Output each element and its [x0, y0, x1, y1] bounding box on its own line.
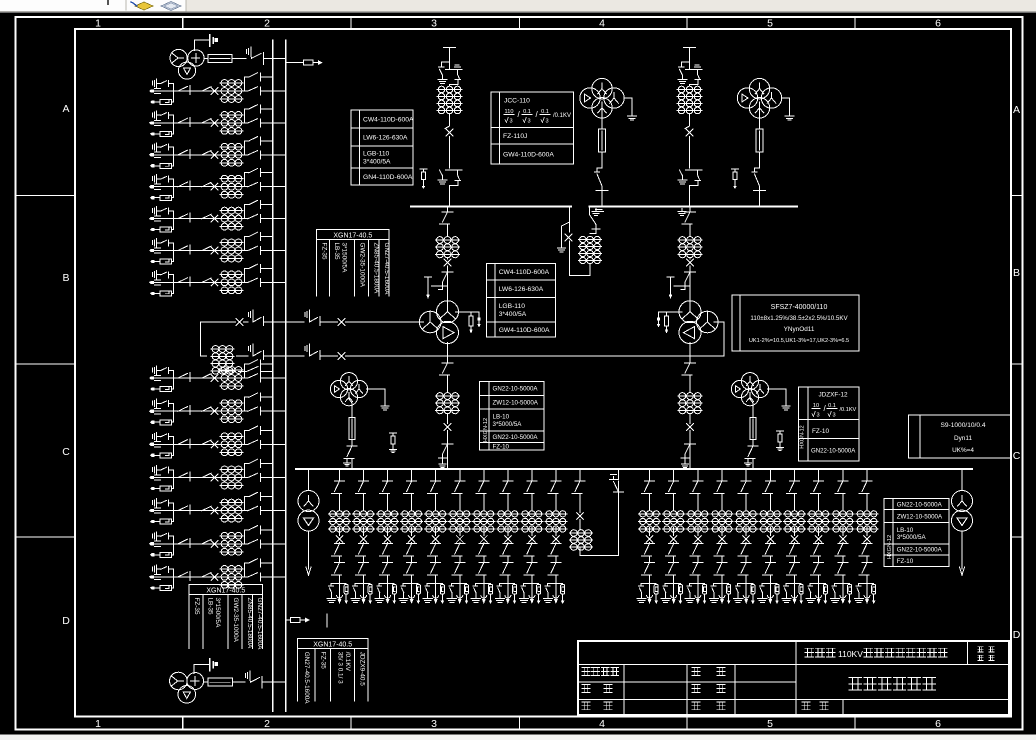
svg-text:2: 2	[264, 718, 270, 730]
svg-text:35/ 3 0.1/ 3: 35/ 3 0.1/ 3	[337, 652, 344, 684]
10kV feeder bay F15	[734, 469, 758, 604]
svg-text:GN22-10-5000A: GN22-10-5000A	[811, 448, 856, 455]
35kV feeder bay L12	[149, 492, 286, 524]
cell: 比例	[582, 702, 590, 710]
svg-text:5: 5	[767, 718, 773, 730]
svg-text:CW4-110D-600A: CW4-110D-600A	[363, 116, 414, 123]
value label table (right HXGN feeders)	[884, 498, 949, 566]
ground below bus (left)	[592, 209, 600, 216]
10kV feeder bay F13	[685, 469, 709, 604]
svg-text:GW4-110D-600A: GW4-110D-600A	[503, 151, 554, 158]
cell: 设计	[692, 668, 700, 676]
cell: 制图	[692, 685, 700, 693]
ground of T5	[194, 40, 196, 51]
svg-text:3*5000/5A: 3*5000/5A	[897, 534, 927, 541]
svg-text:GW4-110D-600A: GW4-110D-600A	[499, 327, 550, 334]
10kV feeder bay F1	[327, 469, 351, 604]
left margin row ticks	[16, 196, 76, 538]
svg-text:XGN17-40.5: XGN17-40.5	[333, 233, 372, 240]
transformer T6 (35kV station transformer, bottom)	[170, 672, 188, 690]
cell: 指导教师	[582, 668, 619, 676]
bus tie row 1 (to transformer T1 35kV winding)	[201, 321, 236, 323]
svg-text:FZ-10: FZ-10	[493, 443, 510, 450]
transformer T5 (top-left station supply)	[170, 49, 187, 66]
arrester F5	[667, 276, 674, 278]
10kV feeder bay F18	[806, 469, 830, 604]
svg-text:FZ-35: FZ-35	[321, 243, 328, 260]
10kV feeder bay F3	[375, 469, 399, 604]
svg-text:GW2-35-1000A: GW2-35-1000A	[359, 243, 366, 288]
10kV feeder bay F17	[782, 469, 806, 604]
10kV feeder bay F12	[661, 469, 685, 604]
drawing title 电气主接线图	[849, 678, 935, 690]
svg-text:LB-10: LB-10	[493, 413, 510, 420]
110kV PT bay PT2	[737, 88, 757, 108]
arrester F1	[420, 168, 427, 170]
earthing disconnector QS6	[245, 673, 247, 677]
svg-text:LW6-126-630A: LW6-126-630A	[363, 134, 408, 141]
35kV feeder bay L2	[149, 105, 286, 137]
svg-text:ZN85-40.5-1800A: ZN85-40.5-1800A	[246, 598, 253, 650]
35kV feeder bay L11	[149, 459, 286, 491]
10kV PT bay PT4	[731, 380, 748, 397]
35kV feeder bay L7	[149, 264, 286, 296]
svg-text:HXGN-12: HXGN-12	[887, 535, 893, 559]
toolbar shadow edge	[0, 12, 1036, 14]
outgoing arrow (bottom)	[286, 619, 291, 621]
svg-text:3: 3	[431, 718, 437, 730]
top margin column ticks	[183, 17, 855, 29]
svg-text:B: B	[62, 272, 69, 284]
svg-text:6: 6	[935, 18, 941, 30]
10kV feeder bay F19	[830, 469, 854, 604]
svg-text:B: B	[1013, 267, 1020, 279]
svg-text:C: C	[1013, 450, 1021, 462]
10kV feeder bay F9	[519, 469, 543, 604]
35kV feeder bay L9	[149, 393, 286, 425]
earthing disconnector QS5	[246, 49, 248, 53]
title small cell	[978, 647, 994, 652]
svg-text:4: 4	[599, 718, 605, 730]
svg-text:FZ-10: FZ-10	[812, 428, 829, 435]
35kV feeder bay L8	[149, 360, 286, 392]
svg-text:3*1500/5A: 3*1500/5A	[341, 243, 348, 274]
cell: 日期	[692, 702, 700, 710]
value label table XGN17-40.5 (35kV switchgear, bottom)	[189, 585, 263, 595]
svg-text:ZW12-10-5000A: ZW12-10-5000A	[897, 513, 943, 520]
svg-text:5: 5	[767, 18, 773, 30]
wire: tie-row bridge (left loop)	[200, 322, 202, 356]
right margin row ticks	[1011, 196, 1023, 538]
svg-text:2: 2	[264, 18, 270, 30]
svg-text:GN22-10-5000A: GN22-10-5000A	[493, 434, 539, 441]
110kV incoming feeder bay WL2	[684, 47, 696, 49]
svg-text:3*5000/5A: 3*5000/5A	[493, 421, 523, 428]
110kV incoming feeder bay WL1	[444, 47, 456, 49]
svg-text:GN22-10-5000A: GN22-10-5000A	[897, 501, 943, 508]
10kV feeder bay F14	[709, 469, 733, 604]
svg-text:UK1-2%=10.5,UK1-3%=17,UK2-3%=6: UK1-2%=10.5,UK1-3%=17,UK2-3%=6.5	[749, 338, 849, 344]
svg-text:HXGN-12: HXGN-12	[800, 425, 806, 448]
svg-text:LB-35: LB-35	[333, 243, 340, 260]
value label table (110kV PT JCC-110)	[491, 92, 574, 164]
110kV PT bay PT1	[580, 88, 600, 108]
svg-text:XGN17-40.5: XGN17-40.5	[313, 642, 352, 649]
svg-text:LGB-110: LGB-110	[499, 303, 526, 310]
svg-text:XGN17-40.5: XGN17-40.5	[206, 588, 245, 595]
svg-text:GW2-35-1000A: GW2-35-1000A	[232, 598, 239, 643]
value label table (110kV bay T1 equipment)	[487, 264, 556, 338]
svg-text:JDZXF-12: JDZXF-12	[818, 392, 848, 399]
svg-text:ZW12-10-5000A: ZW12-10-5000A	[493, 399, 539, 406]
svg-text:JDZX9-40.5: JDZX9-40.5	[359, 652, 366, 687]
svg-text:Dyn11: Dyn11	[954, 435, 972, 442]
35kV feeder bay L5	[149, 200, 286, 232]
svg-text:GN27-40.5-1600A: GN27-40.5-1600A	[303, 652, 310, 705]
svg-text:/0.1KV: /0.1KV	[840, 407, 857, 413]
svg-text:3*1500/5A: 3*1500/5A	[214, 598, 221, 629]
bottom status strip	[0, 735, 1036, 740]
svg-text:3*400/5A: 3*400/5A	[363, 158, 391, 165]
tie row 1 east side	[304, 312, 306, 316]
svg-text:D: D	[1013, 629, 1021, 641]
35kV feeder bay L6	[149, 232, 286, 264]
svg-text:GN27-40.5-1600A: GN27-40.5-1600A	[383, 243, 390, 296]
main transformer T1 branch	[447, 207, 449, 213]
110kV busbar W3 section B	[590, 206, 798, 208]
toolbar strip	[0, 0, 1036, 12]
arrester F2	[732, 168, 739, 170]
svg-text:SFSZ7-40000/110: SFSZ7-40000/110	[771, 304, 828, 311]
svg-text:HXGN-12: HXGN-12	[483, 418, 489, 442]
arrester F8	[779, 431, 781, 434]
svg-text:1: 1	[95, 718, 101, 730]
svg-text:FZ-35: FZ-35	[193, 598, 200, 615]
svg-text:LW6-126-630A: LW6-126-630A	[499, 286, 544, 293]
svg-text:YNynOd11: YNynOd11	[784, 326, 815, 333]
value label table (10kV PT JDZXF)	[798, 387, 859, 461]
bus tie row 2 (to transformer T2 35kV winding)	[201, 355, 207, 357]
svg-text:3: 3	[528, 119, 531, 125]
10kV feeder bay F11	[637, 469, 661, 604]
svg-text:3*400/5A: 3*400/5A	[499, 311, 527, 318]
10kV feeder bay F20	[854, 469, 878, 604]
toolbar icon gray	[161, 2, 181, 11]
35kV busbar W1	[272, 40, 274, 711]
main transformer T2 branch	[689, 207, 691, 213]
station transformer TA2	[961, 469, 963, 491]
station transformer TA1	[308, 469, 310, 491]
value label table (110kV bay WL1 equipment)	[351, 110, 413, 185]
svg-text:A: A	[62, 103, 69, 115]
10kV feeder bay F16	[758, 469, 782, 604]
10kV feeder bay F10	[543, 469, 567, 604]
tie row 3 stub with CT	[239, 371, 247, 373]
35kV feeder bay L4	[149, 169, 286, 201]
svg-text:LB-35: LB-35	[207, 598, 214, 615]
35kV feeder bay L10	[149, 426, 286, 458]
35kV busbar W2	[285, 40, 287, 711]
svg-text:C: C	[62, 446, 70, 458]
10kV bus sectionalizer	[579, 469, 581, 481]
svg-text:3: 3	[510, 119, 513, 125]
fuse of T5	[204, 57, 208, 59]
35kV feeder bay L14	[149, 559, 286, 591]
svg-text:FZ-110J: FZ-110J	[503, 133, 527, 140]
wire: 35kV link to T2	[346, 355, 725, 357]
tie row 2 east side	[304, 346, 306, 350]
10kV feeder bay F2	[351, 469, 375, 604]
svg-text:1: 1	[95, 18, 101, 30]
svg-text:FZ-35: FZ-35	[320, 652, 327, 669]
ground below bus (right)	[678, 209, 686, 216]
value label table (10kV incoming, HXGN)	[480, 382, 544, 450]
10kV feeder bay F7	[471, 469, 495, 604]
svg-text:110±8x1.25%/38.5±2x2.5%/10.5KV: 110±8x1.25%/38.5±2x2.5%/10.5KV	[750, 315, 848, 322]
bottom margin column ticks	[183, 717, 855, 730]
svg-text:GN22-10-5000A: GN22-10-5000A	[897, 547, 943, 554]
svg-text:D: D	[62, 615, 70, 627]
svg-text:4: 4	[599, 18, 605, 30]
svg-text:/0.1KV: /0.1KV	[344, 652, 351, 672]
svg-text:3: 3	[546, 119, 549, 125]
110kV bus sectionalizer QF3	[569, 207, 571, 215]
svg-text:GN4-110D-600A: GN4-110D-600A	[363, 174, 413, 181]
title: project name	[805, 648, 835, 657]
svg-text:S9-1000/10/0.4: S9-1000/10/0.4	[940, 422, 985, 429]
svg-text:FZ-10: FZ-10	[897, 558, 914, 565]
svg-text:UK%=4: UK%=4	[952, 447, 974, 454]
value label table XGN17-40.5 (35kV switchgear, mid)	[316, 230, 389, 240]
35kV feeder bay L1	[149, 73, 286, 105]
svg-text:6: 6	[935, 718, 941, 730]
toolbar icon yellow	[135, 2, 153, 10]
arrester F7	[392, 433, 394, 436]
10kV feeder bay F6	[447, 469, 471, 604]
svg-text:CW4-110D-600A: CW4-110D-600A	[499, 269, 550, 276]
10kV PT bay PT3	[330, 380, 347, 397]
value label table (main transformer SFSZ7)	[732, 295, 859, 351]
svg-text:3: 3	[431, 18, 437, 30]
svg-text:/0.1KV: /0.1KV	[553, 113, 571, 119]
svg-text:3: 3	[817, 413, 820, 419]
svg-text:3: 3	[833, 413, 836, 419]
value label table (S9 station transformer)	[909, 415, 1011, 458]
svg-text:A: A	[1013, 104, 1020, 116]
title block frame	[578, 641, 1009, 715]
wire stub below table	[326, 614, 328, 627]
svg-text:110KV: 110KV	[838, 649, 863, 659]
svg-text:GN27-40.5-1600A: GN27-40.5-1600A	[256, 598, 263, 651]
svg-text:ZN85-40.5-1800A: ZN85-40.5-1800A	[373, 243, 380, 295]
fuse of T6	[204, 681, 208, 683]
value label table XGN17-40.5 (35kV PT cubicle)	[298, 639, 368, 649]
cell: 校核	[582, 685, 590, 693]
svg-text:GN22-10-5000A: GN22-10-5000A	[493, 386, 539, 393]
10kV feeder bay F5	[423, 469, 447, 604]
svg-text:JCC-110: JCC-110	[504, 98, 530, 105]
10kV busbar W4	[296, 468, 972, 470]
cell: 图号	[802, 702, 810, 710]
ground of T6	[193, 665, 195, 674]
svg-text:LB-10: LB-10	[897, 527, 914, 534]
110kV busbar W3 section A	[411, 206, 571, 208]
arrester F3	[425, 276, 432, 278]
10kV feeder bay F4	[399, 469, 423, 604]
incoming line arrow (35kV)	[286, 62, 304, 64]
35kV feeder bay L3	[149, 137, 286, 169]
10kV feeder bay F8	[495, 469, 519, 604]
svg-text:LGB-110: LGB-110	[363, 150, 390, 157]
35kV feeder bay L13	[149, 526, 286, 558]
